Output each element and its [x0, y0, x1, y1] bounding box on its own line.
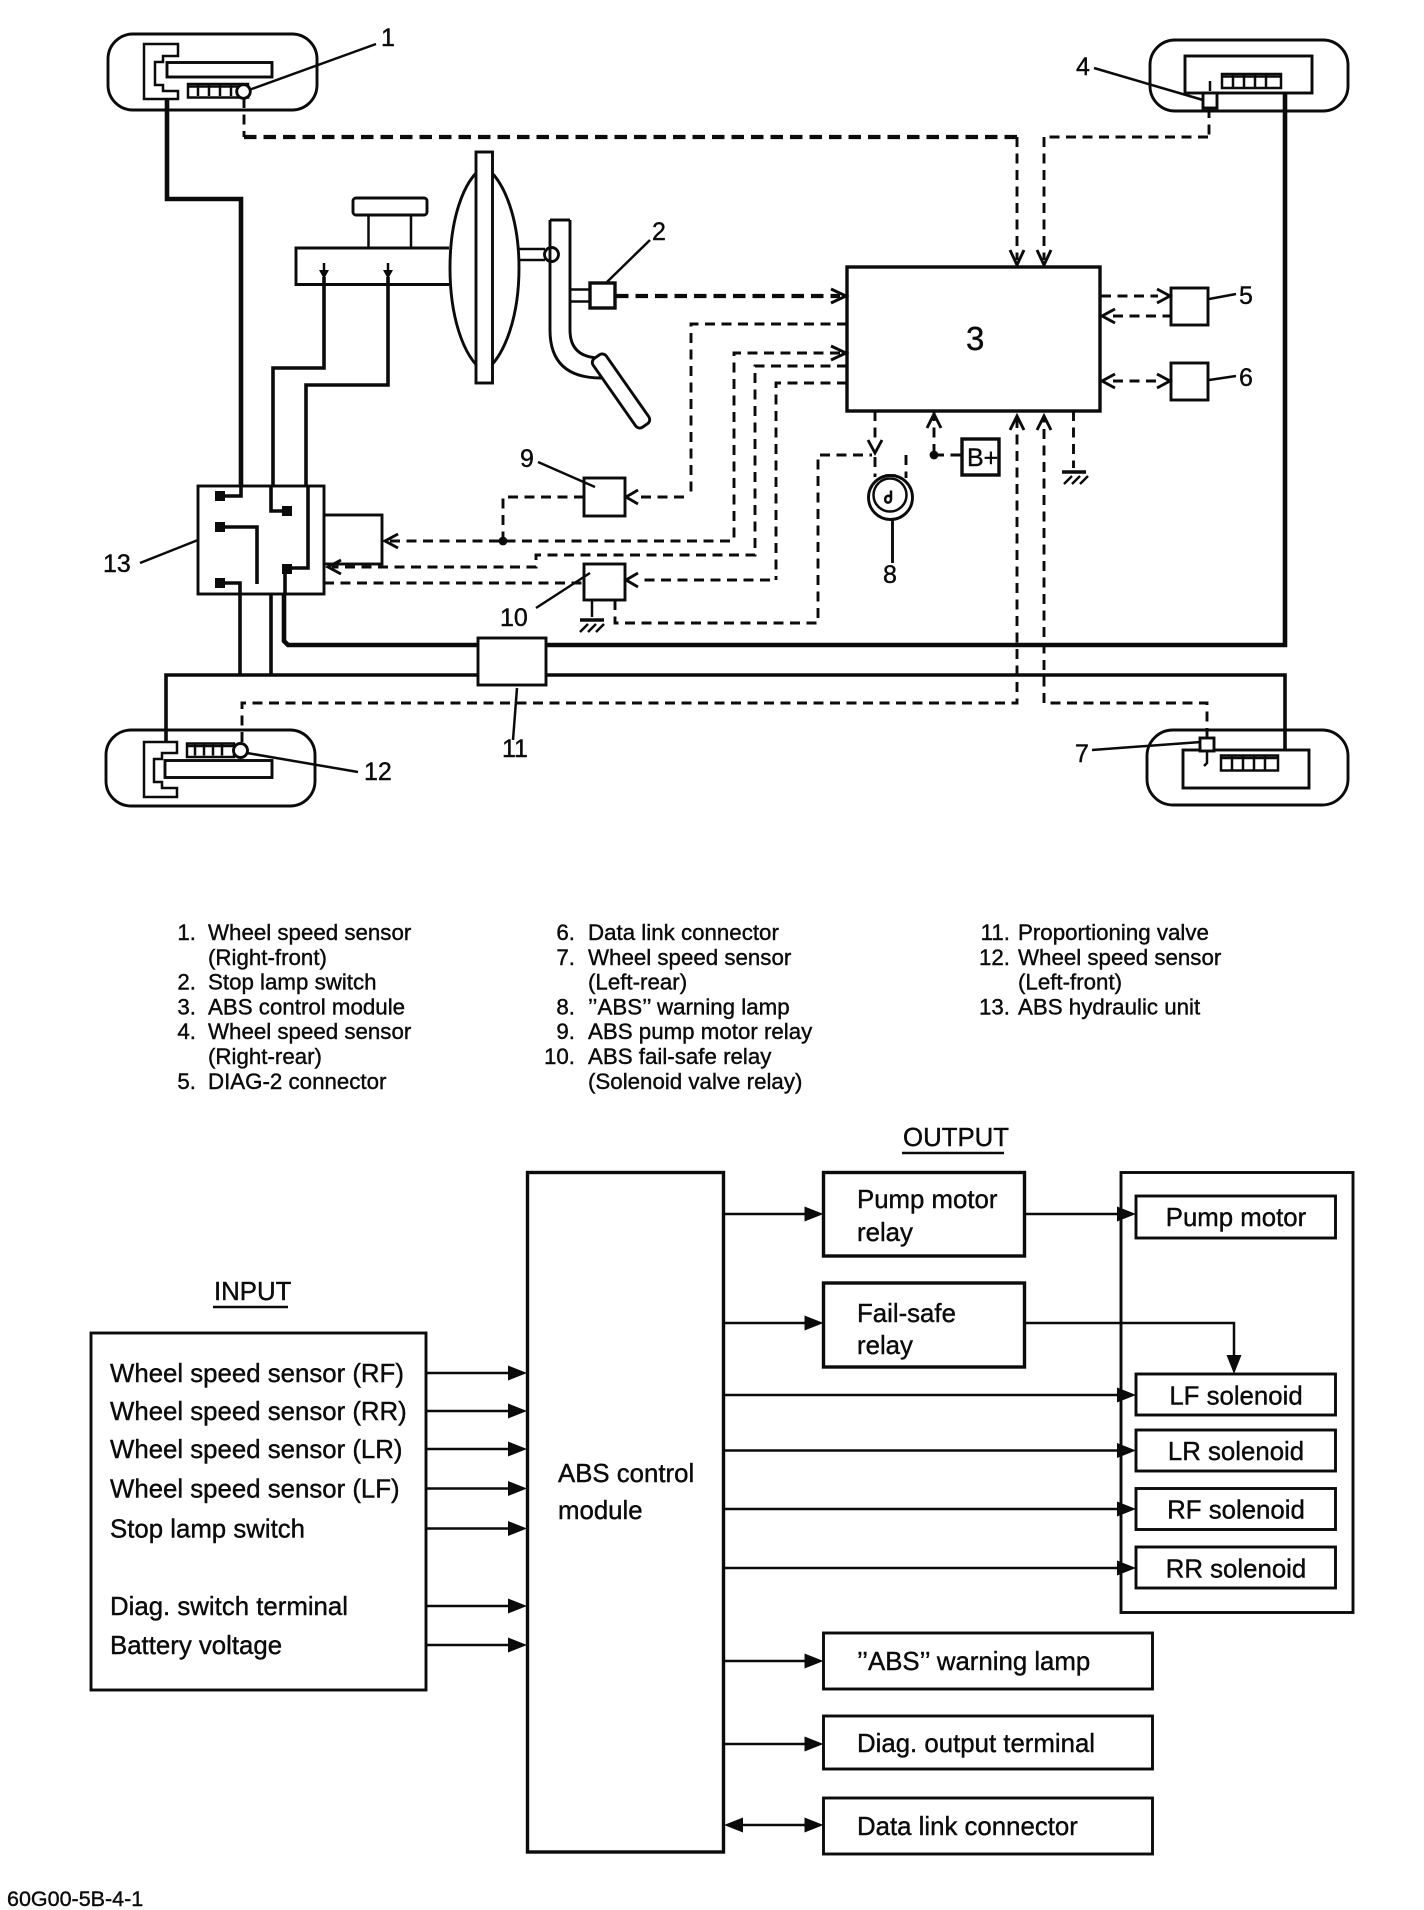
svg-text:ABS control: ABS control — [558, 1460, 694, 1488]
svg-text:’’ABS’’ warning lamp: ’’ABS’’ warning lamp — [857, 1648, 1090, 1676]
sensor ring 12 — [187, 744, 234, 758]
input arrow Wheel_speed_sensor_(RF) — [426, 1366, 527, 1381]
svg-text:(Solenoid valve relay): (Solenoid valve relay) — [588, 1069, 802, 1094]
svg-text:relay: relay — [857, 1332, 913, 1360]
svg-text:LR solenoid: LR solenoid — [1168, 1438, 1304, 1466]
wire module to connector5 out — [1101, 295, 1158, 298]
leader 7 — [1092, 742, 1201, 750]
svg-text:4.: 4. — [177, 1019, 196, 1044]
unit terminal t5 — [215, 578, 225, 588]
arrow into relay10 — [626, 573, 638, 587]
svg-text:ABS control module: ABS control module — [208, 995, 405, 1020]
svg-text:RF solenoid: RF solenoid — [1167, 1497, 1305, 1525]
brake pipe portB-unit — [306, 277, 388, 486]
svg-text:Pump motor: Pump motor — [1166, 1204, 1307, 1232]
RF solenoid box — [1136, 1489, 1336, 1530]
wheel speed sensor 4 — [1203, 81, 1217, 108]
DIAG-2 connector 5 — [1171, 288, 1208, 325]
arrow into pump sub-box — [385, 534, 398, 548]
lamp stem — [891, 519, 894, 563]
svg-text:7.: 7. — [556, 945, 575, 970]
unit terminal t2 — [282, 506, 292, 516]
svg-text:Wheel speed sensor: Wheel speed sensor — [588, 945, 792, 970]
leader 4 — [1094, 68, 1203, 100]
leader 11 — [513, 688, 517, 740]
unit wire w4 — [225, 527, 257, 584]
svg-text:10: 10 — [500, 604, 528, 632]
RR solenoid box — [1136, 1547, 1336, 1588]
wire node to B+ box — [934, 454, 962, 457]
svg-text:6.: 6. — [556, 920, 575, 945]
svg-text:11: 11 — [502, 735, 528, 763]
module block label — [558, 1460, 694, 1525]
ABS control module block — [528, 1173, 724, 1853]
arrow into module top a — [1010, 250, 1024, 265]
wire relay9 left to junction — [503, 497, 584, 538]
svg-text:3.: 3. — [177, 995, 196, 1020]
sensor ring 1 — [188, 84, 248, 98]
wire LR sensor riser — [1044, 416, 1207, 738]
input arrow Battery_voltage — [426, 1638, 527, 1653]
svg-text:12.: 12. — [979, 945, 1010, 970]
arrow module to pump relay — [724, 1207, 824, 1222]
battery B+ box — [962, 439, 999, 475]
input row labels — [110, 1360, 407, 1660]
wire module stub to B+ node — [933, 411, 936, 455]
wheel speed sensor 12 — [234, 744, 248, 758]
wheel LF tire outline — [106, 730, 315, 806]
wire module y366 to unit — [332, 366, 847, 567]
wire module ground stub — [1072, 411, 1075, 468]
arrow into connector6 — [1157, 374, 1170, 388]
ABS pump motor relay 9 — [584, 478, 625, 516]
unit wire w6 — [283, 574, 287, 594]
fail-safe relay box — [824, 1283, 1025, 1367]
LF solenoid box — [1136, 1374, 1336, 1415]
arrow module to diag output — [724, 1737, 824, 1752]
svg-text:Pump motor: Pump motor — [857, 1186, 998, 1214]
brake pipe portA-unit — [273, 277, 324, 486]
unit terminal t3 — [215, 522, 225, 532]
svg-text:5.: 5. — [177, 1069, 196, 1094]
arrow module to LR_solenoid — [724, 1443, 1136, 1458]
svg-text:5: 5 — [1239, 282, 1253, 310]
sensor ring 4 — [1222, 74, 1281, 88]
brake pedal arm — [550, 220, 612, 378]
wire LF sensor riser — [242, 416, 1017, 742]
svg-text:ABS fail-safe relay: ABS fail-safe relay — [588, 1044, 772, 1069]
leader 12 — [247, 753, 358, 772]
wheel RR hub box — [1185, 56, 1312, 93]
svg-text:relay: relay — [857, 1219, 913, 1247]
brake pipe unit outlet b — [269, 594, 273, 675]
svg-text:Wheel speed sensor (LF): Wheel speed sensor (LF) — [110, 1476, 400, 1504]
svg-text:ABS pump motor relay: ABS pump motor relay — [588, 1019, 813, 1044]
pump motor box — [1136, 1196, 1336, 1238]
stop lamp switch body — [571, 283, 615, 308]
arrow up into module x1044 — [1037, 416, 1051, 430]
svg-text:(Left-rear): (Left-rear) — [588, 970, 687, 995]
input arrow Wheel_speed_sensor_(LR) — [426, 1442, 527, 1457]
svg-text:Fail-safe: Fail-safe — [857, 1300, 956, 1328]
data link connector box — [824, 1798, 1153, 1854]
fail-safe output wire — [1025, 1323, 1242, 1374]
svg-text:60G00-5B-4-1: 60G00-5B-4-1 — [7, 1887, 143, 1910]
arrow into module right y381 — [1102, 374, 1115, 388]
svg-text:6: 6 — [1239, 364, 1253, 392]
data link connector 6 — [1171, 363, 1208, 400]
ABS warning lamp box — [824, 1633, 1153, 1689]
svg-text:Diag. switch terminal: Diag. switch terminal — [110, 1593, 348, 1621]
arrow pump relay to pump motor — [1025, 1207, 1137, 1222]
junction dot bus — [499, 537, 508, 546]
leader 1 — [249, 44, 376, 90]
svg-text:Wheel speed sensor: Wheel speed sensor — [208, 1019, 412, 1044]
svg-text:Stop lamp switch: Stop lamp switch — [208, 970, 377, 995]
svg-text:Wheel speed sensor: Wheel speed sensor — [1018, 945, 1222, 970]
svg-text:Wheel speed sensor (LR): Wheel speed sensor (LR) — [110, 1436, 403, 1464]
wheel LF rotor bar — [165, 761, 272, 778]
input arrow Diag._switch_terminal — [426, 1599, 527, 1614]
svg-text:(Left-front): (Left-front) — [1018, 970, 1122, 995]
leader 13 — [140, 540, 198, 563]
brake pipe unit outlet a — [238, 594, 242, 675]
wire B+ bus — [390, 540, 734, 543]
brake pipe lower run — [166, 675, 1285, 750]
leader 5 — [1209, 294, 1236, 299]
svg-text:2.: 2. — [177, 970, 196, 995]
junction dot B+ — [930, 451, 939, 460]
wheel RR tire outline — [1150, 40, 1348, 111]
wire B+ to lamp — [905, 455, 908, 478]
wire stop lamp switch to module — [616, 294, 840, 298]
wheel RF tire outline — [108, 34, 317, 110]
svg-text:8.: 8. — [556, 995, 575, 1020]
svg-text:ABS hydraulic unit: ABS hydraulic unit — [1018, 995, 1201, 1020]
legend column 3 — [979, 920, 1222, 1020]
svg-text:Wheel speed sensor (RF): Wheel speed sensor (RF) — [110, 1360, 404, 1388]
svg-text:Battery voltage: Battery voltage — [110, 1632, 282, 1660]
reservoir neck — [369, 215, 412, 248]
unit wire w3 — [291, 486, 308, 568]
svg-text:9: 9 — [520, 445, 534, 473]
ABS fail-safe relay 10 — [584, 564, 625, 600]
svg-text:Data link connector: Data link connector — [857, 1813, 1078, 1841]
arrow into relay9 — [626, 490, 638, 504]
arrow module to warning lamp — [724, 1654, 824, 1669]
wheel LR tire outline — [1147, 730, 1348, 805]
wire module-connector6 — [1113, 380, 1158, 383]
svg-text:9.: 9. — [556, 1019, 575, 1044]
unit terminal t4 — [282, 564, 292, 574]
pump motor relay box — [824, 1173, 1025, 1257]
svg-text:module: module — [558, 1497, 643, 1525]
input box — [91, 1333, 426, 1690]
arrow into unit right edge — [328, 560, 341, 574]
diag output terminal box — [824, 1716, 1153, 1769]
wire module stub to lamp node — [874, 411, 877, 441]
svg-text:OUTPUT: OUTPUT — [903, 1124, 1009, 1152]
svg-text:’’ABS’’ warning lamp: ’’ABS’’ warning lamp — [588, 995, 790, 1020]
svg-text:13.: 13. — [979, 995, 1010, 1020]
pushrod clevis pin — [545, 248, 559, 262]
wheel speed sensor 1 — [237, 85, 251, 99]
wire module y353 riser — [734, 353, 840, 541]
legend column 2 — [544, 920, 813, 1094]
svg-text:1: 1 — [381, 24, 395, 52]
svg-text:Wheel speed sensor (RR): Wheel speed sensor (RR) — [110, 1398, 407, 1426]
wheel RF caliper bracket — [144, 44, 178, 99]
svg-text:10.: 10. — [544, 1044, 575, 1069]
proportioning valve 11 — [478, 638, 546, 685]
svg-text:(Right-front): (Right-front) — [208, 945, 327, 970]
unit wire w5 — [225, 583, 240, 594]
svg-text:RR solenoid: RR solenoid — [1166, 1556, 1307, 1584]
wire module y324 to relay9 — [640, 324, 847, 497]
wheel speed sensor 7 — [1200, 738, 1214, 766]
svg-text:3: 3 — [966, 320, 984, 357]
booster diaphragm plate — [476, 152, 493, 383]
arrow into module left y353 — [831, 346, 846, 360]
svg-text:LF solenoid: LF solenoid — [1169, 1383, 1302, 1411]
arrow into module top b — [1037, 250, 1051, 265]
arrow up into module x934 — [927, 414, 941, 428]
brake pipe wheel1-unit — [167, 99, 241, 486]
svg-text:7: 7 — [1075, 740, 1089, 768]
wire lamp drop — [874, 457, 877, 477]
wire sensor4 to module — [1044, 136, 1208, 139]
wire connector5 to module — [1113, 315, 1171, 318]
outlet fitting B — [383, 263, 393, 279]
brake pipe upper run — [284, 93, 1285, 645]
pump sub-box — [324, 515, 382, 564]
svg-text:Wheel speed sensor: Wheel speed sensor — [208, 920, 412, 945]
leader 10 — [536, 573, 590, 608]
wire module y383 to relay10 — [640, 383, 847, 580]
wire riser module top a — [1016, 137, 1019, 260]
svg-text:Proportioning valve: Proportioning valve — [1018, 920, 1209, 945]
booster shell — [450, 166, 519, 372]
svg-text:Stop lamp switch: Stop lamp switch — [110, 1516, 305, 1544]
wire sensor1 to module — [244, 135, 1017, 139]
svg-text:4: 4 — [1076, 53, 1090, 81]
unit terminal t1 — [215, 491, 225, 501]
svg-text:B+: B+ — [967, 444, 998, 472]
OUTPUT heading — [902, 1124, 1009, 1153]
wheel RF rotor bar — [167, 63, 272, 78]
svg-text:13: 13 — [103, 550, 131, 578]
arrow module to LF_solenoid — [724, 1388, 1136, 1403]
LR solenoid box — [1136, 1430, 1336, 1471]
INPUT heading — [213, 1278, 292, 1307]
leader 2 — [607, 240, 650, 282]
svg-text:12: 12 — [364, 758, 392, 786]
svg-text:(Right-rear): (Right-rear) — [208, 1044, 322, 1069]
ABS warning lamp 8 — [869, 476, 913, 520]
ABS hydraulic unit 13 — [198, 486, 324, 594]
svg-text:2: 2 — [652, 218, 666, 246]
ground under module — [1062, 472, 1088, 484]
wire sensor4 drop — [1208, 108, 1211, 137]
outlet fitting A — [319, 263, 329, 279]
ground under relay 10 — [580, 600, 604, 632]
wheel LF caliper bracket — [144, 742, 177, 797]
wire riser module top b — [1043, 137, 1046, 260]
svg-text:1.: 1. — [177, 920, 196, 945]
input arrow Wheel_speed_sensor_(LF) — [426, 1481, 527, 1496]
svg-text:11.: 11. — [981, 920, 1010, 945]
arrow module to data link bidirectional — [724, 1818, 824, 1833]
wheel LR hub box — [1183, 750, 1309, 788]
pushrod — [519, 249, 545, 260]
arrow module to RR_solenoid — [724, 1561, 1136, 1576]
svg-text:Data link connector: Data link connector — [588, 920, 779, 945]
svg-text:INPUT: INPUT — [214, 1278, 292, 1306]
solenoid group box — [1121, 1173, 1353, 1613]
unit wire w2 — [271, 486, 282, 511]
leader 9 — [538, 462, 595, 487]
svg-text:DIAG-2 connector: DIAG-2 connector — [208, 1069, 387, 1094]
wire unit to relay10 coil — [324, 582, 584, 585]
arrow up into module x1017 — [1010, 416, 1024, 430]
arrow down at lamp node — [868, 440, 882, 453]
leader 6 — [1209, 376, 1236, 380]
reservoir cap — [353, 198, 427, 215]
wire relay10 to lamp node — [615, 455, 872, 623]
arrow module to fail-safe — [724, 1316, 824, 1331]
arrow into connector5 — [1157, 289, 1170, 303]
svg-text:Diag. output terminal: Diag. output terminal — [857, 1730, 1095, 1758]
svg-text:8: 8 — [883, 561, 897, 589]
input arrow Stop_lamp_switch — [426, 1521, 527, 1536]
arrow into module right y316 — [1102, 309, 1115, 323]
sensor ring 7 — [1221, 756, 1278, 771]
unit wire w1 — [225, 486, 241, 496]
ABS control module 3 — [847, 267, 1100, 411]
arrow module to RF_solenoid — [724, 1502, 1136, 1517]
arrow into module left y296 — [831, 289, 846, 303]
legend column 1 — [177, 920, 411, 1094]
input arrow Wheel_speed_sensor_(RR) — [426, 1404, 527, 1419]
brake pedal pad — [590, 352, 651, 430]
wire sensor1 drop — [243, 98, 246, 137]
master cylinder body — [296, 248, 449, 285]
